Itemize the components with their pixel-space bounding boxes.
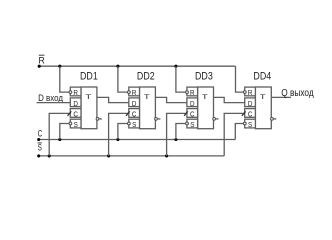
svg-text:R: R	[190, 90, 195, 98]
svg-text:D: D	[190, 101, 195, 109]
DD4 Q-bar output inversion bubble	[271, 118, 274, 121]
svg-text:T: T	[85, 93, 91, 100]
svg-text:C: C	[248, 111, 253, 119]
wire R-bar bus to DD4 R pin	[236, 66, 244, 92]
svg-text:C: C	[190, 111, 195, 119]
svg-text:D: D	[132, 101, 137, 109]
wire R-bar bus to DD3 R pin	[176, 66, 186, 92]
svg-text:S: S	[74, 122, 79, 130]
wire DD4 Q output	[271, 96, 291, 98]
svg-text:S: S	[132, 122, 137, 130]
svg-text:R: R	[132, 90, 137, 98]
svg-text:R: R	[39, 55, 46, 65]
wire C bus to DD1 S pin	[60, 124, 70, 140]
wire DD4 Q-bar output stub	[273, 118, 276, 120]
node C bus junction at DD1	[58, 138, 61, 141]
svg-text:DD4: DD4	[253, 71, 271, 83]
svg-text:T: T	[202, 93, 208, 100]
wire S-bar bus to DD3 C pin	[167, 113, 186, 155]
wire R-bar bus to DD2 R pin	[118, 66, 128, 92]
node R-bar bus junction at DD2	[116, 65, 119, 68]
svg-text:Q выход: Q выход	[281, 87, 314, 98]
svg-text:D: D	[248, 101, 253, 109]
node S-bar bus junction at DD1	[48, 154, 51, 157]
DD4 S input inversion bubble	[243, 122, 246, 125]
net C bus wire	[39, 139, 236, 141]
DD3 S input inversion bubble	[186, 122, 189, 125]
net S-bar bus wire	[39, 155, 225, 157]
node C bus junction at DD3	[174, 138, 177, 141]
wire C bus to DD4 S pin	[235, 124, 243, 140]
wire DD3 Q-bar output stub	[215, 118, 218, 120]
svg-text:D вход: D вход	[38, 92, 63, 103]
DD2 C dynamic input marker	[126, 111, 130, 115]
net R-bar bus wire	[39, 65, 235, 67]
svg-text:R: R	[248, 90, 253, 98]
D flip-flop DD3 body	[187, 87, 214, 129]
label R-bar	[39, 55, 46, 65]
D flip-flop DD4 body	[245, 87, 272, 129]
wire DD1 Q output to DD2 D input	[97, 97, 129, 102]
svg-text:DD3: DD3	[195, 71, 213, 83]
node C bus left terminal	[37, 138, 40, 141]
node R-bar bus left terminal	[38, 65, 41, 68]
label S-bar	[38, 142, 42, 152]
svg-text:DD1: DD1	[80, 71, 98, 83]
wire DD2 Q-bar output stub	[157, 118, 160, 120]
DD4 R input inversion bubble	[243, 91, 246, 94]
svg-text:S: S	[190, 122, 195, 130]
svg-text:R: R	[73, 90, 78, 98]
svg-text:C: C	[73, 111, 78, 119]
wire S-bar bus to DD1 C pin	[49, 113, 69, 155]
node C bus junction at DD2	[116, 138, 119, 141]
wire S-bar bus to DD4 C pin	[224, 113, 244, 155]
svg-text:DD2: DD2	[137, 71, 155, 83]
svg-text:S: S	[248, 122, 253, 130]
D flip-flop DD2 body	[129, 87, 156, 129]
wire R-bar bus to DD1 R pin	[60, 66, 70, 92]
D flip-flop DD1 body	[70, 87, 97, 129]
DD2 S input inversion bubble	[127, 122, 130, 125]
wire DD3 Q output to DD4 D input	[214, 97, 245, 102]
node S-bar bus left terminal	[37, 154, 40, 157]
DD3 C dynamic input marker	[184, 111, 188, 115]
wire C bus to DD2 S pin	[118, 124, 128, 140]
svg-text:S: S	[38, 142, 42, 152]
wire DD2 Q output to DD3 D input	[155, 97, 187, 102]
svg-text:C: C	[38, 129, 43, 139]
DD3 R input inversion bubble	[186, 91, 189, 94]
node R-bar bus junction at DD1	[58, 65, 61, 68]
wire DD1 Q-bar output stub	[99, 118, 102, 120]
node R-bar bus junction at DD3	[174, 65, 177, 68]
DD1 R input inversion bubble	[69, 91, 72, 94]
DD1 C dynamic input marker	[68, 111, 72, 115]
DD2 R input inversion bubble	[127, 91, 130, 94]
DD1 Q-bar output inversion bubble	[96, 118, 99, 121]
svg-text:D: D	[73, 101, 78, 109]
DD2 Q-bar output inversion bubble	[155, 118, 158, 121]
DD3 Q-bar output inversion bubble	[213, 118, 216, 121]
wire S-bar bus to DD2 C pin	[109, 113, 128, 155]
DD4 C dynamic input marker	[242, 111, 246, 115]
node S-bar bus junction at DD3	[165, 154, 168, 157]
wire C bus to DD3 S pin	[176, 124, 186, 140]
svg-text:T: T	[260, 93, 266, 100]
node S-bar bus junction at DD2	[107, 154, 110, 157]
svg-text:T: T	[144, 93, 150, 100]
DD1 S input inversion bubble	[69, 122, 72, 125]
wire D input to DD1 D pin	[37, 102, 71, 104]
svg-text:C: C	[132, 111, 137, 119]
